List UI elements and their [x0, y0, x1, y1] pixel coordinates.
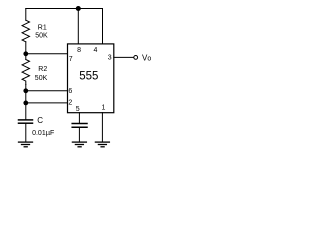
node junction dot top rail: [76, 6, 81, 11]
node Vo output terminal circle: [134, 56, 138, 60]
svg-text:C: C: [37, 116, 43, 125]
svg-text:8: 8: [77, 47, 81, 54]
svg-text:1: 1: [102, 105, 106, 112]
svg-text:5: 5: [76, 106, 80, 113]
wire capacitor C to ground: [25, 124, 27, 142]
svg-text:50K: 50K: [35, 75, 48, 82]
wire pin 4 vertical: [102, 9, 104, 44]
resistor R1: [22, 20, 29, 42]
op-amp U1 555 timer box: [68, 44, 114, 113]
wire pin 3 output stub: [114, 56, 134, 58]
resistor R2: [22, 60, 29, 85]
capacitor at pin 5 plates: [72, 123, 87, 125]
node junction dot pin 6: [23, 88, 28, 93]
svg-text:0.01µF: 0.01µF: [32, 128, 54, 137]
svg-text:6: 6: [68, 88, 72, 95]
svg-text:2: 2: [68, 99, 72, 106]
wire pin 7 stub: [26, 53, 68, 55]
node junction dot pin 7: [23, 51, 28, 56]
wire pin 1 vertical to ground: [101, 113, 103, 142]
ground below pin 1: [95, 141, 109, 143]
svg-text:R2: R2: [38, 66, 47, 73]
svg-text:R1: R1: [38, 24, 47, 31]
svg-text:4: 4: [94, 47, 98, 54]
node junction dot pin 2: [23, 101, 28, 106]
svg-text:50K: 50K: [35, 33, 48, 40]
svg-text:3: 3: [108, 54, 112, 61]
ground below pin 5 capacitor: [72, 141, 86, 143]
wire rail R2 to capacitor C: [25, 85, 27, 120]
svg-text:555: 555: [79, 70, 98, 82]
wire pin 5 vertical: [78, 113, 80, 124]
wire rail R1 to R2: [25, 42, 27, 60]
wire pin 6 stub: [26, 90, 68, 92]
wire pin5 capacitor to ground: [78, 128, 80, 142]
wire top rail: [26, 8, 103, 10]
svg-text:7: 7: [69, 56, 73, 63]
ground below C: [19, 141, 33, 143]
capacitor C plates: [19, 119, 33, 121]
wire left rail top: [25, 9, 27, 21]
wire pin 8 vertical: [77, 9, 79, 44]
svg-text:Vo: Vo: [142, 53, 151, 62]
wire pin 2 stub: [26, 102, 68, 104]
